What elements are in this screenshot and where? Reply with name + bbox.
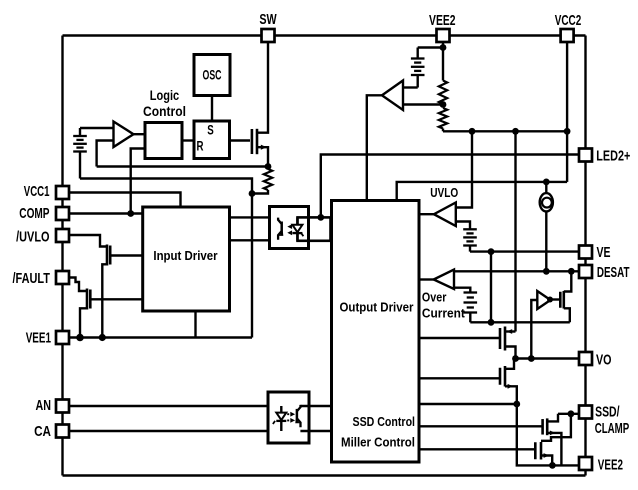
block Output Driver (332, 201, 420, 463)
label VCC1 (24, 183, 50, 200)
svg-text:Input Driver: Input Driver (153, 248, 217, 263)
wire top border (63, 34, 586, 36)
wire rail to LED2 line (566, 131, 568, 182)
svg-text:CLAMP: CLAMP (595, 420, 630, 437)
wire SSD gate line (419, 425, 542, 427)
svg-text:Logic: Logic (150, 87, 180, 103)
node LED2 rail junction (543, 179, 550, 186)
label VE (597, 244, 611, 261)
svg-text:/UVLO: /UVLO (16, 228, 50, 245)
wire U2 output to Output Driver (367, 95, 382, 200)
label COMP (19, 205, 49, 222)
wire /FAULT to Q3 drain (69, 278, 87, 292)
wire O2 to Output Driver top (300, 405, 331, 407)
pin AN (56, 400, 69, 413)
wire U5 input from VO (531, 300, 537, 359)
battery B4 OC ref (464, 293, 478, 323)
wire U3 output (419, 213, 434, 215)
svg-text:SSD/: SSD/ (595, 403, 620, 420)
wire B2 to U2 +input (403, 86, 418, 88)
node rail UVLO junction (469, 128, 476, 135)
pin VCC2 (561, 29, 574, 42)
pin SW (262, 29, 275, 42)
wire Q6 source to VEE2 (541, 453, 552, 465)
wire P1 source to VO (505, 347, 516, 359)
op-amp U2 comparator (382, 81, 403, 111)
battery B3 UVLO ref (463, 229, 477, 251)
wire Q4 source to VE rail (564, 308, 570, 322)
node VEE1 Q3 junction (76, 334, 84, 342)
wire left border (61, 36, 63, 476)
svg-text:S: S (207, 123, 214, 138)
wire Q3 source to VEE1 (80, 308, 87, 337)
wire S-R latch to Q1 gate (230, 139, 251, 141)
O1 coupling arrows (287, 224, 295, 235)
pin VO (579, 352, 592, 365)
svg-text:VEE2: VEE2 (429, 12, 456, 29)
pin DESAT (579, 265, 592, 278)
pin CA (56, 425, 69, 438)
node VEE2 pin junction (440, 44, 447, 51)
label OSC (203, 67, 222, 83)
svg-text:Over: Over (422, 290, 447, 304)
label CA (34, 423, 51, 440)
label SSD/ (595, 403, 620, 420)
op-amp U3 UVLO comparator (434, 203, 456, 227)
wire Q6 drain to SSD pin (541, 414, 571, 441)
battery B2 (411, 48, 425, 88)
wire UVLO +input (456, 131, 472, 207)
label DESAT (597, 264, 630, 281)
node U5 output junction (547, 297, 553, 303)
node Q1 source junction (265, 163, 272, 170)
svg-text:CA: CA (34, 423, 51, 440)
transistor O1 phototransistor (278, 218, 283, 240)
label UVLO (430, 186, 458, 200)
node N1 source junction (513, 401, 520, 408)
block S-R latch (194, 121, 230, 159)
pin VEE1 (56, 331, 69, 344)
wire R1 bottom to node (252, 190, 268, 194)
svg-text:VO: VO (596, 352, 612, 369)
op-amp U4 over current comparator (434, 270, 454, 290)
svg-text:Current: Current (422, 306, 466, 320)
wire Input Driver to O1 cathode line (230, 239, 270, 241)
svg-text:LED2+: LED2+ (596, 148, 630, 165)
wire Q3 gate to Input Driver (92, 298, 143, 300)
current source CS1 (540, 182, 553, 271)
wire Q1 drain to SW (257, 42, 268, 133)
label LED2+ (596, 148, 630, 165)
node VE lower junction (488, 319, 495, 326)
label VEE2 (598, 456, 623, 473)
diode O1 LED (292, 217, 303, 240)
svg-text:COMP: COMP (19, 205, 49, 222)
wire VE lower rail (470, 321, 570, 323)
wire VE rail (470, 250, 579, 252)
wire node to VEE1 rail (251, 194, 253, 338)
svg-text:VE: VE (597, 244, 611, 261)
transistor O2 phototransistor (295, 405, 300, 427)
wire VCC2 to P1 drain (514, 131, 516, 331)
resistor R2 (439, 81, 447, 105)
wire SSD pin line (558, 413, 579, 415)
label VEE2 top (429, 12, 456, 29)
wire Q1 source (257, 145, 268, 167)
transistor N1 pull-down (500, 366, 505, 387)
wire R3 to rail corner (442, 129, 444, 132)
label /UVLO (16, 228, 50, 245)
pin VCC1 (56, 186, 69, 199)
block optocoupler O1 body (270, 207, 309, 249)
resistor R1 sense (264, 169, 272, 190)
wire VE vertical link (490, 252, 492, 323)
wire buffer U1 second input (97, 141, 114, 167)
resistor R3 (439, 108, 447, 129)
svg-text:OSC: OSC (203, 67, 222, 83)
transistor Q2 /UVLO pulldown (107, 245, 110, 266)
wire Input Driver to O1 anode line (230, 216, 270, 218)
wire AN line (69, 405, 281, 407)
transistor P1 pull-up (500, 327, 505, 351)
pin LED2+ (579, 149, 592, 162)
node COMP junction (127, 210, 134, 217)
diode O2 LED (273, 406, 286, 431)
wire LED2 rail (397, 182, 567, 201)
pin VEE2 top (437, 29, 450, 42)
label Output Driver (340, 300, 414, 315)
wire U5 to Q4 gate (550, 298, 559, 300)
wire Q5 source to VEE2 (547, 431, 561, 466)
block O1 LED box (298, 217, 331, 240)
label Miller Control (341, 436, 415, 450)
op-amp U5 clamp buffer (537, 291, 550, 309)
wire CA line (69, 430, 281, 432)
node VO junction A (512, 355, 519, 362)
svg-text:AN: AN (36, 397, 52, 414)
svg-text:Control: Control (143, 103, 186, 119)
wire VCC2 pin drop (566, 42, 568, 131)
node DESAT CS junction (543, 268, 550, 275)
wire N1 drain to VO (505, 359, 514, 369)
label VO (596, 352, 612, 369)
wire N1 gate line (419, 377, 499, 379)
pin VE (579, 246, 592, 259)
wire Q4 drain to DESAT (564, 271, 572, 291)
node DESAT clamp junction (568, 268, 575, 275)
svg-text:SSD Control: SSD Control (353, 415, 416, 429)
pin COMP (56, 207, 69, 220)
label AN (36, 397, 52, 414)
wire right border (584, 36, 586, 476)
svg-text:VCC2: VCC2 (555, 12, 582, 29)
block Input Driver (143, 207, 230, 311)
wire VEE2 pin down (442, 42, 444, 81)
label Control (143, 103, 186, 119)
wire P1 gate line (419, 337, 499, 339)
wire N1 source to VEE2 rail (517, 404, 579, 465)
node O1 output junction (317, 214, 324, 221)
wire B2 to VEE2 node (418, 46, 443, 48)
transistor Q5 SSD (543, 418, 548, 435)
transistor Q6 Miller clamp (535, 442, 541, 460)
wire bottom border (63, 474, 586, 476)
wire U4 output (419, 278, 434, 280)
svg-text:Miller Control: Miller Control (341, 436, 415, 450)
wire COMP to Input Driver (69, 212, 143, 214)
wire VO line (514, 357, 579, 359)
wire Q2 gate to Input Driver (111, 254, 142, 256)
wire VEE1 rail (69, 336, 252, 338)
wire Q5 drain to SSD pin (547, 414, 558, 422)
wire battery B1 bottom rail (80, 179, 252, 194)
node VEE2 rail junction (549, 462, 556, 469)
wire DESAT line (454, 270, 579, 272)
svg-text:SW: SW (259, 11, 277, 28)
node VEE1 return junction (249, 190, 256, 197)
wire U1 output to Logic Control (134, 133, 146, 135)
label S (207, 123, 214, 138)
node rail PMOS junction (512, 128, 519, 135)
wire Miller gate line (419, 448, 534, 450)
node VEE1 Q2 junction (99, 334, 106, 341)
wire Logic Control to COMP node (131, 149, 145, 214)
label CLAMP (595, 420, 630, 437)
wire U4 -input to B4 (454, 288, 470, 292)
node rail VCC2 junction (564, 128, 571, 135)
node VO junction B (528, 355, 535, 362)
wire Q2 source to VEE1 (102, 264, 107, 337)
svg-text:Output Driver: Output Driver (340, 300, 414, 315)
op-amp U1 buffer (114, 122, 134, 148)
svg-text:VEE2: VEE2 (598, 456, 623, 473)
label /FAULT (13, 270, 51, 287)
wire VCC2 rail (443, 130, 567, 132)
transistor Q4 DESAT clamp (560, 291, 564, 309)
block OSC (194, 55, 230, 96)
transistor Q3 /FAULT pulldown (87, 289, 90, 310)
pin /FAULT (56, 271, 69, 284)
node SSD junction (568, 410, 575, 417)
pin VEE2 (579, 457, 592, 470)
svg-text:UVLO: UVLO (430, 186, 458, 200)
wire OSC to S input (211, 96, 213, 122)
svg-text:VCC1: VCC1 (24, 183, 50, 200)
node divider junction (440, 101, 447, 108)
wire O2 to Output Driver bottom (300, 430, 331, 432)
node VE junction (488, 248, 495, 255)
wire P1 drain stub (505, 329, 516, 334)
battery B1 reference (73, 128, 87, 179)
label Logic (150, 87, 180, 103)
wire U3 -input to B3 (456, 222, 470, 230)
transistor Q1 (252, 129, 257, 154)
pin SSD/CLAMP (579, 406, 592, 419)
wire N1 source (505, 384, 517, 404)
wire VCC1 to Input Driver (69, 193, 181, 208)
wire Logic Control to R input (182, 139, 194, 141)
pin /UVLO (56, 229, 69, 242)
label Current (422, 306, 466, 320)
wire Input Driver ground (194, 311, 196, 338)
svg-text:DESAT: DESAT (597, 264, 630, 281)
label Over (422, 290, 447, 304)
wire O1 to LED2+ line (321, 155, 579, 218)
svg-text:/FAULT: /FAULT (13, 270, 51, 287)
block Logic Control (145, 123, 182, 159)
wire divider to U2 -input (403, 103, 443, 105)
label VEE1 (26, 329, 51, 346)
label VCC2 (555, 12, 582, 29)
wire /UVLO to Q2 drain (69, 235, 106, 247)
wire Output Driver sense line (419, 403, 517, 405)
label R (197, 139, 204, 154)
label SSD Control (353, 415, 416, 429)
wire B1 top to buffer U1 +input (80, 127, 114, 129)
svg-text:R: R (197, 139, 204, 154)
wire feedback line (97, 165, 268, 167)
label Input Driver (153, 248, 217, 263)
block optocoupler O2 body (268, 392, 309, 443)
O2 coupling arrows (287, 412, 295, 423)
svg-text:VEE1: VEE1 (26, 329, 51, 346)
label SW (259, 11, 277, 28)
